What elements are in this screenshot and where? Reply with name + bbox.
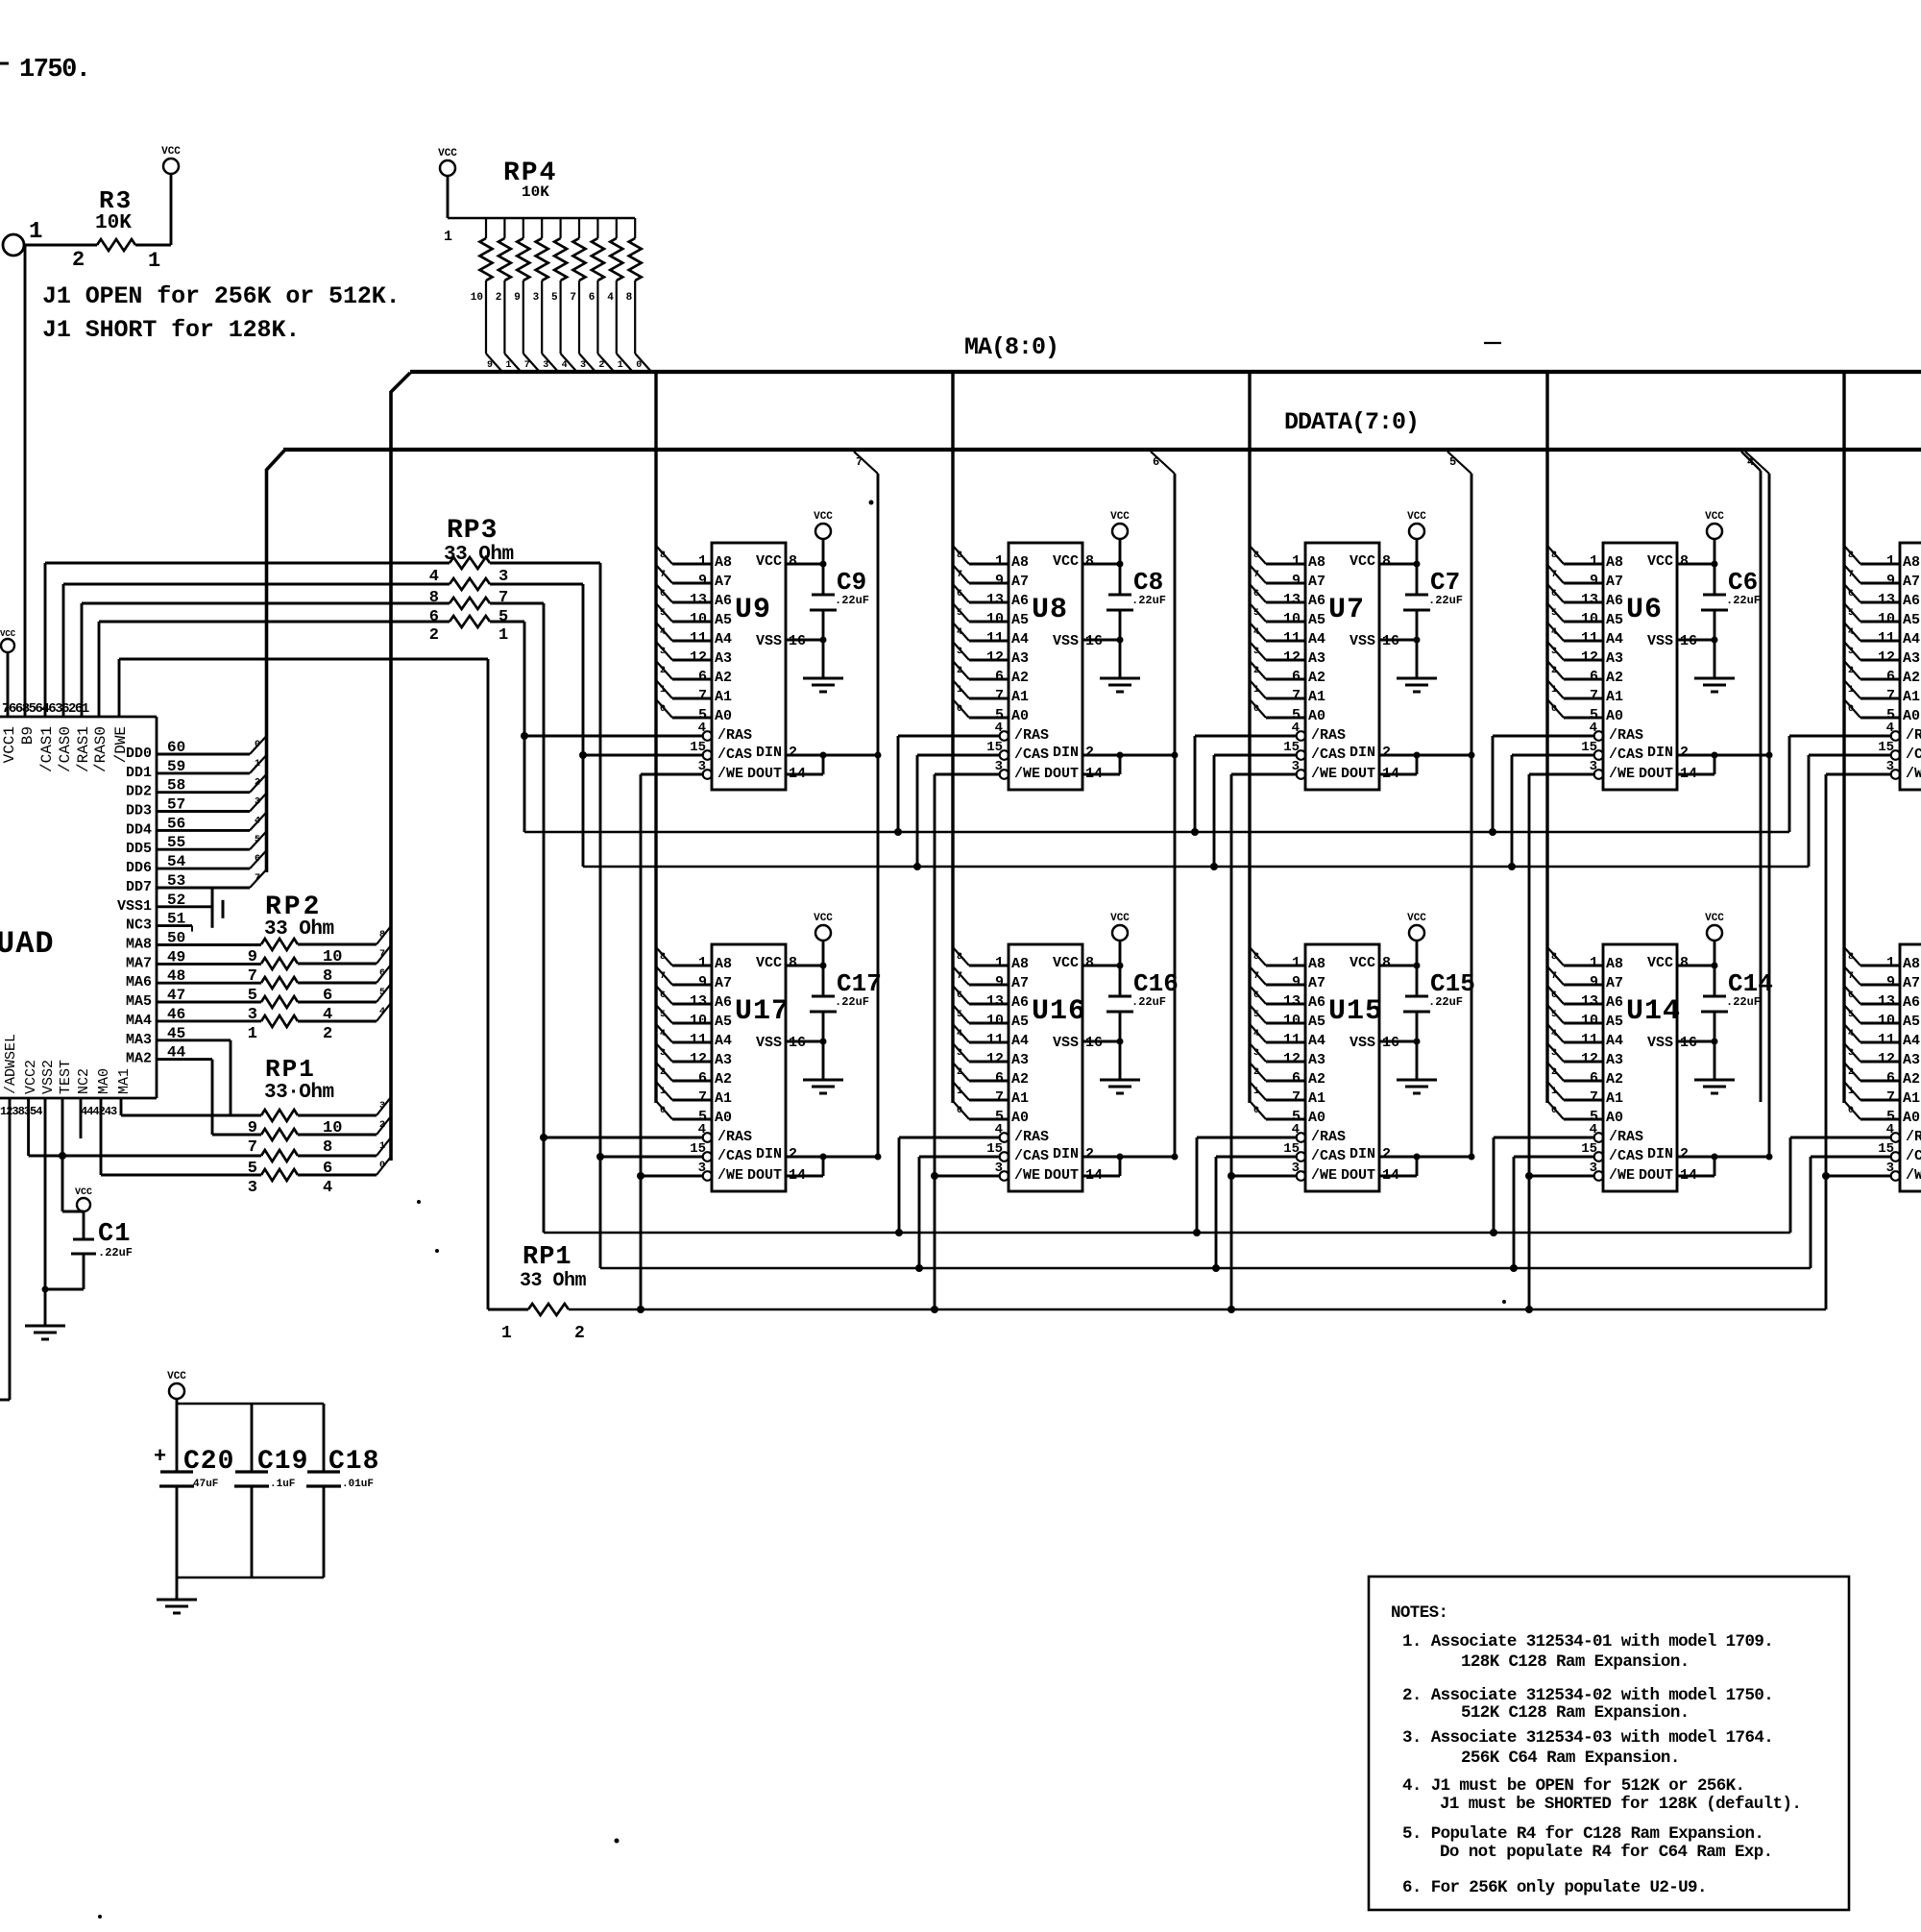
svg-text:/CAS0: /CAS0 [57, 726, 74, 772]
svg-text:3: 3 [379, 1101, 385, 1112]
svg-text:TEST: TEST [58, 1060, 74, 1094]
svg-text:7668564636261: 7668564636261 [2, 701, 89, 717]
svg-text:A5: A5 [1308, 612, 1325, 628]
svg-text:A4: A4 [1903, 1033, 1920, 1049]
svg-text:A1: A1 [1308, 689, 1325, 705]
bus vertical MA left branch [389, 391, 393, 1161]
svg-text:1: 1 [1590, 553, 1598, 570]
address bus entries U16 [953, 947, 1008, 1119]
svg-text:/RAS: /RAS [717, 1129, 752, 1145]
svg-text:DIN: DIN [1053, 1146, 1079, 1162]
svg-text:A7: A7 [1011, 574, 1029, 590]
svg-text:A2: A2 [1308, 1071, 1325, 1088]
svg-text:3: 3 [1292, 759, 1300, 774]
capacitor C15 .22uF [1403, 963, 1475, 1081]
svg-text:/RAS: /RAS [1906, 727, 1921, 744]
svg-text:/CAS: /CAS [1906, 746, 1921, 763]
wire /CAS0 riser from IC [63, 584, 450, 717]
svg-text:UAD: UAD [0, 926, 55, 962]
wire DIN/DOUT U6 [1677, 752, 1773, 775]
svg-text:13: 13 [986, 993, 1004, 1010]
svg-text:A2: A2 [1903, 670, 1920, 686]
svg-text:6: 6 [698, 1070, 707, 1087]
svg-text:6: 6 [1253, 589, 1259, 599]
ground at C7 [1397, 678, 1437, 692]
wire DIN/DOUT U9 [786, 752, 882, 775]
svg-text:.22uF: .22uF [98, 1246, 133, 1259]
wire VCC pin U17 [786, 965, 823, 967]
svg-text:/CAS: /CAS [1014, 746, 1049, 763]
svg-text:12: 12 [986, 1051, 1004, 1067]
svg-text:DOUT: DOUT [747, 1167, 782, 1184]
svg-text:1: 1 [248, 1025, 257, 1043]
svg-text:16: 16 [1382, 633, 1399, 649]
svg-text:A0: A0 [1606, 1110, 1623, 1126]
svg-text:MA(8:0): MA(8:0) [964, 333, 1058, 361]
svg-text:15: 15 [1283, 740, 1300, 755]
svg-text:1: 1 [255, 759, 260, 770]
svg-text:A1: A1 [1308, 1090, 1325, 1107]
svg-text:A6: A6 [1903, 593, 1920, 609]
svg-text:12: 12 [986, 649, 1004, 666]
svg-text:A2: A2 [715, 670, 732, 686]
svg-text:C20: C20 [183, 1447, 234, 1477]
DRAM chip U6 [1581, 543, 1697, 790]
IC pin 48 MA6 [126, 967, 261, 990]
ground at C15 [1397, 1080, 1437, 1093]
DRAM chip U8 [986, 543, 1103, 790]
svg-text:11: 11 [690, 630, 707, 647]
svg-text:7: 7 [1253, 971, 1259, 982]
svg-text:RP3: RP3 [447, 516, 498, 546]
svg-text:15: 15 [690, 1141, 706, 1157]
svg-text:1: 1 [957, 685, 962, 696]
svg-text:.22uF: .22uF [835, 995, 869, 1009]
net DD5 vertical [1447, 452, 1471, 1157]
svg-text:3: 3 [957, 1048, 962, 1059]
svg-text:5: 5 [1848, 608, 1854, 619]
svg-text:A2: A2 [1606, 1071, 1623, 1088]
svg-text:/RAS: /RAS [1014, 1129, 1049, 1145]
svg-text:VCC: VCC [1407, 511, 1426, 523]
svg-text:C6: C6 [1728, 568, 1758, 597]
svg-text:8: 8 [1551, 952, 1557, 963]
net DD4 vertical [1745, 452, 1769, 1157]
resistor pack RP2 33 Ohm [248, 893, 391, 1043]
svg-text:7: 7 [1886, 1089, 1895, 1106]
svg-text:128K C128 Ram Expansion.: 128K C128 Ram Expansion. [1461, 1652, 1690, 1672]
svg-text:A4: A4 [715, 631, 732, 648]
capacitor C20 47uF [154, 1404, 234, 1577]
svg-text:A5: A5 [1011, 612, 1029, 628]
svg-text:/WE: /WE [717, 1167, 743, 1184]
svg-text:4: 4 [1292, 721, 1300, 736]
svg-text:1: 1 [505, 360, 511, 371]
svg-text:NC3: NC3 [126, 917, 152, 934]
svg-text:A3: A3 [1606, 650, 1623, 667]
svg-text:5: 5 [1253, 1010, 1259, 1020]
svg-text:15: 15 [690, 740, 706, 755]
svg-text:15: 15 [1581, 740, 1597, 755]
svg-text:8: 8 [660, 550, 666, 561]
VCC symbol at C15 [1407, 913, 1426, 996]
svg-text:/ADWSEL: /ADWSEL [3, 1034, 19, 1094]
svg-text:4: 4 [957, 627, 962, 638]
wire /DWE riser from IC [118, 659, 121, 717]
svg-text:6: 6 [379, 968, 385, 979]
svg-text:1: 1 [618, 360, 623, 371]
svg-text:6: 6 [1292, 1070, 1301, 1087]
IC pin 44 MA2 [126, 1044, 212, 1135]
svg-text:A0: A0 [715, 1110, 732, 1126]
svg-text:J1 OPEN for 256K or 512K.: J1 OPEN for 256K or 512K. [42, 282, 401, 310]
svg-text:C7: C7 [1430, 568, 1460, 597]
svg-text:/WE: /WE [1014, 1167, 1040, 1184]
svg-text:VCC: VCC [0, 629, 16, 639]
svg-text:6: 6 [1590, 669, 1598, 685]
ground at C1 [25, 1326, 65, 1339]
svg-text:2: 2 [957, 666, 962, 676]
svg-text:7: 7 [856, 455, 863, 469]
svg-text:6: 6 [1292, 669, 1301, 685]
svg-text:12: 12 [1283, 649, 1301, 666]
svg-text:10: 10 [690, 611, 707, 627]
svg-text:VSS: VSS [1647, 1035, 1673, 1051]
svg-text:A7: A7 [1903, 574, 1920, 590]
svg-text:3: 3 [698, 1161, 706, 1176]
IC pin 49 MA7 [126, 948, 261, 971]
svg-text:.1uF: .1uF [270, 1479, 295, 1490]
svg-text:A0: A0 [1606, 708, 1623, 724]
svg-text:4: 4 [698, 1122, 706, 1137]
svg-text:NOTES:: NOTES: [1391, 1603, 1447, 1623]
svg-text:A8: A8 [1011, 956, 1029, 972]
svg-text:.01uF: .01uF [342, 1479, 374, 1490]
svg-text:C16: C16 [1133, 969, 1179, 998]
svg-text:DD4: DD4 [126, 821, 152, 838]
svg-text:8: 8 [1680, 955, 1689, 971]
svg-text:2: 2 [1085, 1146, 1094, 1162]
svg-text:10: 10 [1283, 611, 1301, 627]
svg-text:1. Associate 312534-01 with mo: 1. Associate 312534-01 with model 1709. [1402, 1632, 1773, 1651]
svg-text:+: + [154, 1445, 166, 1469]
svg-text:4: 4 [1590, 1122, 1597, 1137]
svg-text:/CAS: /CAS [1311, 746, 1346, 763]
VCC symbol at C17 [814, 913, 833, 996]
svg-text:1: 1 [1551, 1087, 1557, 1097]
svg-text:/WE: /WE [717, 766, 743, 782]
svg-text:6: 6 [660, 589, 666, 599]
svg-text:A4: A4 [1606, 631, 1623, 648]
resistor pack RP1 33 Ohm (MA low bits) [248, 1055, 391, 1197]
wire VSS pin U6 [1677, 639, 1714, 642]
wire VSS2 to ground [42, 1098, 85, 1326]
svg-text:DD3: DD3 [126, 803, 152, 819]
svg-text:J1 SHORT for 128K.: J1 SHORT for 128K. [42, 316, 300, 344]
svg-text:VCC: VCC [1053, 553, 1079, 570]
svg-text:VCC: VCC [756, 553, 782, 570]
bus vertical column 3 [1248, 372, 1251, 1103]
bus DDATA(7:0) [267, 408, 1921, 470]
svg-text:4: 4 [1292, 1122, 1300, 1137]
VCC symbol at R3 [161, 146, 181, 174]
svg-text:6: 6 [957, 589, 962, 599]
svg-text:RP1: RP1 [265, 1055, 316, 1084]
svg-text:11: 11 [1283, 1032, 1301, 1048]
svg-text:256K C64 Ram Expansion.: 256K C64 Ram Expansion. [1461, 1749, 1680, 1768]
IC pin 54 DD6 [126, 850, 267, 876]
svg-text:9: 9 [1590, 974, 1598, 990]
svg-text:11: 11 [690, 1032, 707, 1048]
svg-text:8: 8 [789, 955, 797, 971]
svg-text:A8: A8 [1606, 554, 1623, 571]
svg-text:444243: 444243 [81, 1105, 117, 1118]
svg-text:U9: U9 [735, 594, 771, 626]
svg-text:5. Populate R4 for C128 Ram Ex: 5. Populate R4 for C128 Ram Expansion. [1402, 1824, 1763, 1844]
svg-text:A7: A7 [1606, 574, 1623, 590]
wire DIN/DOUT U8 [1082, 752, 1179, 775]
svg-text:3: 3 [1848, 647, 1854, 657]
svg-text:DD0: DD0 [126, 746, 152, 762]
svg-text:9: 9 [698, 573, 707, 589]
svg-text:7: 7 [995, 1089, 1004, 1106]
svg-text:1: 1 [498, 626, 508, 645]
wire /CAS1 riser from IC [45, 563, 450, 717]
svg-text:47uF: 47uF [193, 1479, 218, 1490]
svg-text:7: 7 [1551, 971, 1557, 982]
wire VCC pin U9 [786, 563, 823, 566]
svg-text:C14: C14 [1728, 969, 1773, 998]
svg-text:13: 13 [986, 592, 1004, 608]
svg-text:8: 8 [957, 550, 962, 561]
svg-text:8: 8 [1253, 550, 1259, 561]
svg-text:6: 6 [255, 854, 260, 865]
svg-text:VCC: VCC [814, 913, 833, 924]
svg-text:7: 7 [498, 589, 508, 607]
VCC symbol at RP4 [438, 148, 457, 176]
wire R3 to VCC [135, 175, 171, 245]
svg-text:4: 4 [698, 721, 706, 736]
svg-text:A0: A0 [1308, 1110, 1325, 1126]
svg-text:1: 1 [1551, 685, 1557, 696]
svg-text:A4: A4 [715, 1033, 732, 1049]
VCC symbol at C16 [1110, 913, 1130, 996]
wire MA0 to RP1 row4 [101, 1098, 261, 1175]
svg-text:MA6: MA6 [126, 974, 152, 990]
wire DIN/DOUT U17 [786, 1154, 882, 1177]
svg-text:A6: A6 [1903, 994, 1920, 1011]
ground at C20 [157, 1600, 197, 1613]
svg-text:A4: A4 [1011, 1033, 1029, 1049]
svg-text:MA7: MA7 [126, 955, 152, 971]
address bus entries U13 [1844, 947, 1899, 1119]
IC pin 59 DD1 [126, 755, 267, 781]
svg-text:A2: A2 [1011, 1071, 1029, 1088]
svg-text:A1: A1 [1606, 689, 1623, 705]
svg-text:DOUT: DOUT [1044, 1167, 1079, 1184]
svg-text:6: 6 [660, 990, 666, 1001]
wire VSS pin U17 [786, 1040, 823, 1043]
note text J1 SHORT [42, 316, 300, 344]
svg-text:6: 6 [1253, 990, 1259, 1001]
VCC symbol at C6 [1705, 511, 1724, 595]
svg-text:A2: A2 [1606, 670, 1623, 686]
svg-text:/WE: /WE [1311, 1167, 1337, 1184]
svg-text:10: 10 [986, 611, 1004, 627]
svg-text:A1: A1 [1903, 1090, 1920, 1107]
svg-text:15: 15 [1878, 740, 1894, 755]
wire VSS pin U14 [1677, 1040, 1714, 1043]
svg-text:A3: A3 [1308, 1052, 1325, 1068]
svg-text:A3: A3 [715, 650, 732, 667]
svg-text:15: 15 [1581, 1141, 1597, 1157]
svg-text:.22uF: .22uF [1131, 995, 1166, 1009]
svg-text:C9: C9 [837, 568, 866, 597]
svg-text:2: 2 [323, 1025, 332, 1043]
IC pin 55 DD5 [126, 831, 267, 857]
svg-text:A5: A5 [1308, 1014, 1325, 1030]
address bus entries U6 [1547, 546, 1602, 718]
svg-text:3: 3 [1551, 647, 1557, 657]
svg-text:DDATA(7:0): DDATA(7:0) [1284, 408, 1419, 436]
svg-text:3: 3 [1590, 1161, 1597, 1176]
connector J1 [3, 219, 42, 256]
svg-text:1: 1 [1292, 955, 1301, 971]
address bus entries U8 [953, 546, 1008, 718]
svg-text:VCC: VCC [814, 511, 833, 523]
bus MA(8:0) [391, 333, 1921, 392]
svg-text:C15: C15 [1430, 969, 1475, 998]
svg-text:33 Ohm: 33 Ohm [444, 544, 514, 566]
svg-text:1: 1 [1886, 955, 1895, 971]
svg-text:4: 4 [957, 1029, 962, 1039]
svg-text:7: 7 [995, 688, 1004, 704]
svg-text:A6: A6 [1606, 994, 1623, 1011]
wire IC pin to RP1 row3 [29, 1098, 261, 1160]
svg-text:VCC: VCC [1407, 913, 1426, 924]
svg-text:A4: A4 [1308, 1033, 1325, 1049]
svg-text:16: 16 [1680, 1035, 1697, 1051]
svg-text:13: 13 [1581, 592, 1598, 608]
svg-text:Do not populate R4 for C64 Ram: Do not populate R4 for C64 Ram Exp. [1440, 1843, 1773, 1862]
svg-text:11: 11 [986, 630, 1004, 647]
VCC symbol at C7 [1407, 511, 1426, 595]
svg-text:VCC1: VCC1 [1, 726, 18, 763]
svg-text:7: 7 [1886, 688, 1895, 704]
svg-text:1: 1 [1848, 685, 1854, 696]
svg-text:/CAS: /CAS [1906, 1148, 1921, 1164]
svg-text:VCC: VCC [167, 1371, 186, 1382]
svg-text:A5: A5 [1011, 1014, 1029, 1030]
svg-text:4: 4 [660, 627, 666, 638]
svg-text:6. For 256K only populate U2-U: 6. For 256K only populate U2-U9. [1402, 1878, 1707, 1897]
svg-text:/RAS: /RAS [1311, 727, 1346, 744]
ground at C14 [1694, 1080, 1735, 1093]
address bus entries U17 [656, 947, 711, 1119]
svg-text:7: 7 [957, 570, 962, 580]
svg-text:11: 11 [1581, 1032, 1598, 1048]
svg-text:A8: A8 [1308, 554, 1325, 571]
svg-text:2: 2 [660, 1067, 666, 1078]
svg-text:A3: A3 [1903, 1052, 1920, 1068]
svg-text:DD5: DD5 [126, 841, 152, 857]
svg-text:1: 1 [660, 685, 666, 696]
svg-text:R3: R3 [99, 186, 133, 215]
svg-text:A2: A2 [1308, 670, 1325, 686]
svg-text:/RAS: /RAS [1014, 727, 1049, 744]
svg-text:A7: A7 [1011, 975, 1029, 991]
svg-text:7: 7 [1292, 1089, 1301, 1106]
svg-text:VCC: VCC [1110, 511, 1130, 523]
svg-text:2: 2 [496, 292, 502, 304]
svg-text:A2: A2 [715, 1071, 732, 1088]
svg-text:VCC: VCC [1053, 955, 1079, 971]
svg-text:3: 3 [1551, 1048, 1557, 1059]
svg-text:/CAS: /CAS [717, 1148, 752, 1164]
svg-text:4: 4 [1253, 1029, 1259, 1039]
svg-text:7: 7 [1590, 1089, 1598, 1106]
DRAM chip U5 [1878, 543, 1921, 790]
svg-text:VCC: VCC [161, 146, 181, 158]
svg-text:4: 4 [1848, 627, 1854, 638]
net /DWE from IC to RP1 and chips [119, 659, 1891, 1313]
svg-text:U8: U8 [1032, 594, 1068, 626]
svg-text:10: 10 [471, 292, 483, 304]
svg-text:A3: A3 [1011, 1052, 1029, 1068]
svg-text:9: 9 [995, 573, 1004, 589]
svg-text:4: 4 [1848, 1029, 1854, 1039]
notes text [1391, 1603, 1801, 1897]
svg-text:2: 2 [957, 1067, 962, 1078]
svg-text:A6: A6 [715, 994, 732, 1011]
svg-text:A1: A1 [1011, 1090, 1029, 1107]
svg-text:/CAS: /CAS [1609, 746, 1643, 763]
svg-text:DOUT: DOUT [1341, 766, 1375, 782]
IC pin 47 MA5 [126, 987, 261, 1010]
svg-text:7: 7 [1253, 570, 1259, 580]
DRAM chip U16 [986, 944, 1103, 1191]
svg-text:/WE: /WE [1906, 766, 1921, 782]
svg-text:A1: A1 [715, 689, 732, 705]
VCC1 symbol at IC [0, 629, 16, 717]
capacitor C7 .22uF [1403, 561, 1463, 679]
capacitor C17 .22uF [810, 963, 882, 1081]
svg-text:C18: C18 [328, 1447, 379, 1477]
svg-text:VCC: VCC [1110, 913, 1130, 924]
svg-text:DOUT: DOUT [1639, 1167, 1673, 1184]
svg-text:3: 3 [957, 647, 962, 657]
svg-text:/CAS: /CAS [1014, 1148, 1049, 1164]
svg-text:A5: A5 [715, 1014, 732, 1030]
svg-text:2: 2 [1382, 745, 1391, 761]
svg-text:16: 16 [1085, 1035, 1103, 1051]
svg-text:7: 7 [957, 971, 962, 982]
svg-text:8: 8 [1382, 553, 1391, 570]
NC2 stub [80, 1098, 83, 1138]
IC pin 52 VSS1 [117, 888, 223, 928]
svg-text:MA3: MA3 [126, 1032, 152, 1048]
svg-text:A8: A8 [1606, 956, 1623, 972]
svg-text:U7: U7 [1328, 594, 1365, 626]
svg-text:13: 13 [1283, 993, 1301, 1010]
svg-text:2: 2 [1680, 1146, 1689, 1162]
svg-text:0: 0 [1848, 1106, 1854, 1116]
svg-text:3: 3 [1253, 1048, 1259, 1059]
svg-text:0: 0 [1551, 1106, 1557, 1116]
svg-text:5: 5 [1551, 608, 1557, 619]
svg-text:A4: A4 [1606, 1033, 1623, 1049]
DRAM chip U14 [1581, 944, 1697, 1191]
